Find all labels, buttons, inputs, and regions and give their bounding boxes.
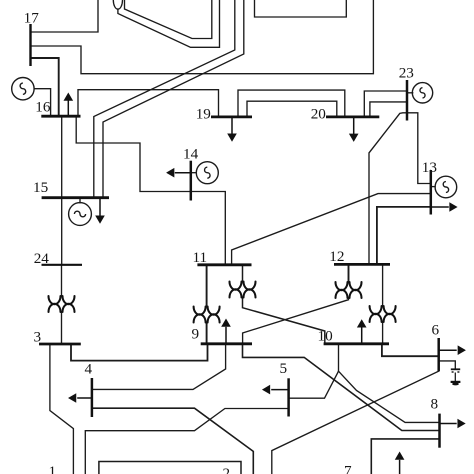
load arrow bus 10 (up) (361, 327, 363, 344)
wire 9-8 (243, 344, 440, 431)
bus 19 bar (211, 116, 252, 119)
wire 11-9 (206, 265, 208, 344)
bus 8 bar (438, 414, 441, 448)
load arrow bus 7 (up) (399, 460, 401, 474)
svg-text:7: 7 (344, 463, 352, 474)
wire 10-6 (382, 344, 439, 356)
wire 16-14 (76, 116, 191, 191)
wire 21-22 loop (255, 0, 347, 17)
wire 3-1 (50, 344, 74, 474)
transformer 11-10 (230, 282, 256, 290)
capacitor at bus 6 plate 2 (451, 381, 461, 383)
load arrow bus 19 (down) (231, 117, 233, 134)
wire 7-8 (371, 439, 439, 474)
svg-text:20: 20 (311, 105, 327, 122)
wire 17-22 long wrap (31, 0, 374, 74)
wire 11-13 (232, 194, 431, 265)
wire 3-9 (71, 344, 208, 361)
wire 5-10 (289, 344, 339, 398)
wire 16-19 (78, 90, 219, 117)
generator at bus 18 (cut off, circle bottom) (113, 0, 122, 9)
bus 16 bar (41, 115, 80, 118)
svg-text:2: 2 (223, 465, 231, 474)
wire 15-21 circuit 1 (94, 0, 235, 198)
svg-text:10: 10 (318, 328, 334, 345)
svg-text:9: 9 (192, 326, 200, 343)
svg-text:19: 19 (196, 105, 211, 122)
load arrow bus 8 (right) (440, 423, 457, 425)
generator at bus 15 (69, 203, 92, 226)
load arrow bus 4 (left) (77, 397, 92, 399)
wire 15-21 circuit 2 (103, 0, 244, 198)
bus 6 bar (437, 338, 440, 371)
wire 14-11 (191, 192, 226, 265)
load arrow bus 9 (up) (225, 327, 227, 344)
load arrow bus 16 (up) (67, 101, 69, 117)
bus 12 bar (334, 263, 390, 266)
svg-text:1: 1 (49, 463, 57, 474)
svg-text:17: 17 (24, 9, 40, 26)
bus 9 bar (201, 342, 252, 345)
transformer 12-10 (370, 306, 396, 314)
svg-text:23: 23 (399, 64, 414, 81)
capacitor at bus 6 bottom blob (452, 383, 459, 386)
svg-text:11: 11 (193, 249, 208, 266)
svg-text:14: 14 (183, 146, 199, 163)
wire 12-10 (382, 264, 384, 343)
svg-text:6: 6 (432, 322, 440, 339)
bus 13 bar (430, 170, 433, 215)
generator at bus 14 (196, 162, 218, 184)
svg-text:5: 5 (280, 360, 288, 377)
wire 15-24 (61, 198, 63, 265)
svg-text:13: 13 (422, 159, 437, 176)
wire 8-10 (339, 371, 440, 422)
svg-text:24: 24 (34, 250, 50, 267)
wire 18-21 circuit 2 inner loop (125, 0, 212, 39)
wire 12-13 (377, 207, 431, 265)
bus 24 bar (42, 264, 83, 266)
wire 12-23 (369, 113, 407, 265)
wire 17-18 (31, 0, 99, 32)
wire 18-21 circuit 1 outer loop (118, 0, 220, 47)
svg-text:3: 3 (34, 329, 42, 346)
bus 20 bar (326, 116, 379, 119)
wire generator 23 stem (407, 92, 413, 94)
bus 17 bar (29, 24, 31, 66)
transformer 24-3 (49, 296, 75, 304)
wire 23-13 (407, 113, 431, 184)
svg-text:8: 8 (431, 396, 439, 413)
bus 23 bar (406, 80, 409, 121)
bus 5 bar (287, 378, 290, 416)
capacitor at bus 6 tick right (457, 371, 459, 373)
wire 4-9 (92, 344, 226, 390)
wire capacitor feed bus 6 (439, 361, 456, 368)
wire 16-17 (31, 58, 59, 116)
load arrow bus 6 (right) (439, 349, 457, 351)
load arrow bus 15 (down) (99, 198, 101, 217)
bus 11 bar (197, 263, 251, 266)
wire 15-16 (61, 116, 63, 198)
wire generator 16 stem (34, 89, 50, 117)
generator at bus 23 (412, 83, 432, 103)
wire 19-20 circuit 2 (247, 101, 337, 117)
wire 2-6 (272, 371, 439, 474)
wire 20-23 circuit 2 (370, 102, 407, 117)
generator at bus 16 (12, 78, 34, 100)
wire 11-10 (243, 265, 325, 344)
bus 15 bar (42, 196, 109, 199)
bus 3 bar (39, 343, 81, 346)
bus 10 bar (324, 342, 389, 345)
wire generator 14 stem (191, 172, 196, 174)
transformer 12-9 (336, 282, 362, 290)
svg-text:12: 12 (329, 248, 344, 265)
wire 24-3 (61, 265, 63, 344)
load arrow bus 13 (right) (431, 206, 449, 208)
svg-text:4: 4 (85, 361, 93, 378)
svg-text:16: 16 (35, 99, 51, 116)
wire 1-2 loop (99, 462, 241, 474)
svg-text:15: 15 (33, 179, 48, 196)
transformer 11-9 (194, 307, 220, 315)
wire 2-4 (92, 408, 253, 474)
capacitor at bus 6 stem (454, 373, 456, 382)
bus 4 bar (91, 378, 94, 417)
wire 19-20 circuit 1 (238, 90, 345, 117)
capacitor at bus 6 tick left (452, 371, 454, 373)
load arrow bus 5 (left) (271, 389, 288, 391)
generator at bus 13 (435, 176, 457, 198)
load arrow bus 14 (left) (175, 172, 191, 174)
wire generator 13 stem (431, 186, 435, 188)
load arrow bus 20 (down) (353, 117, 355, 134)
bus 14 bar (190, 161, 193, 201)
wire 20-23 circuit 1 (364, 91, 407, 117)
wire generator 15 stem (79, 198, 81, 203)
capacitor at bus 6 plate 1 (451, 368, 460, 370)
wire 12-9 (348, 264, 350, 282)
wire 1-5 (85, 409, 288, 474)
